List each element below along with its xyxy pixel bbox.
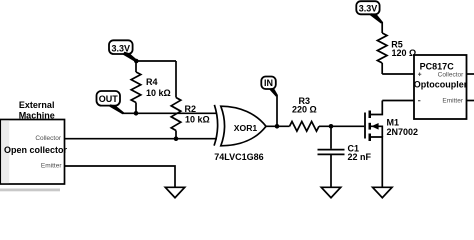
svg-text:M1: M1 [387,118,400,128]
junction R2/row2 [174,136,179,141]
junction R4/row1 [134,111,139,116]
wire row3 emitter to ground [65,166,176,188]
resistor R2 [171,61,210,139]
external machine box [0,100,68,191]
XOR gate XOR1 [214,105,266,162]
net label OUT [97,91,125,114]
wire opto emitter stub [467,100,474,102]
wire R3 to M1 gate [319,125,364,127]
pin label - (opto) [418,100,420,102]
svg-text:Emitter: Emitter [41,163,62,170]
svg-text:120 Ω: 120 Ω [392,48,417,58]
wire row1 OUT to XOR input A [123,112,217,114]
ground (C1) [321,187,340,197]
svg-text:3.3V: 3.3V [359,4,378,14]
resistor R5 [377,22,416,74]
svg-text:74LVC1G86: 74LVC1G86 [214,152,263,162]
svg-text:2N7002: 2N7002 [387,127,419,137]
svg-text:220 Ω: 220 Ω [292,105,317,115]
svg-text:10 kΩ: 10 kΩ [146,88,171,98]
svg-text:Collector: Collector [438,71,464,78]
svg-text:Machine: Machine [19,110,55,120]
wire opto collector stub [467,73,474,75]
net label IN [261,77,278,127]
junction C1 node [329,124,334,129]
svg-text:PC817C: PC817C [420,62,455,72]
wire row2 collector to XOR input B [65,138,218,140]
svg-text:10 kΩ: 10 kΩ [185,115,210,125]
wire opto cathode to M1 drain [382,100,414,102]
svg-text:R4: R4 [146,77,158,87]
resistor R3 [290,96,320,131]
wire XOR output to R3 [266,125,290,127]
capacitor C1 [318,126,372,187]
resistor R4 [131,61,171,113]
svg-text:OUT: OUT [99,94,119,104]
junction node A [134,59,139,64]
svg-text:External: External [19,100,55,110]
ground (M1 source) [373,187,392,197]
svg-text:IN: IN [264,78,273,88]
power flag 3.3V (left) [109,40,137,62]
power flag 3.3V (right) [356,1,383,23]
svg-text:Emitter: Emitter [442,97,463,104]
transistor M1 2N7002 [365,101,418,188]
optocoupler PC817C [414,55,468,119]
wire top rail [136,60,176,62]
svg-text:XOR1: XOR1 [234,123,258,133]
svg-text:3.3V: 3.3V [112,43,131,53]
pin label + (opto) [418,73,421,76]
svg-text:22 nF: 22 nF [348,152,372,162]
svg-text:Open collector: Open collector [4,145,68,155]
svg-text:Optocoupler: Optocoupler [414,80,468,90]
wire R5 to opto anode [382,73,414,75]
ground (emitter wire) [165,187,184,197]
svg-text:Collector: Collector [35,135,61,142]
junction IN node [275,124,280,129]
